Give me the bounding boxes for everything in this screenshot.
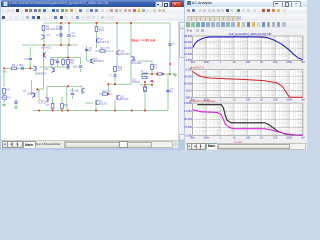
wire fb riser — [66, 86, 68, 111]
svg-text:375.000: 375.000 — [184, 125, 193, 129]
wire C8 drop — [72, 88, 74, 92]
svg-text:600: 600 — [6, 90, 11, 92]
svg-text:C1: C1 — [20, 64, 24, 67]
svg-text:D2: D2 — [56, 34, 60, 37]
svg-text:Q11: Q11 — [120, 97, 125, 99]
wire C2 branch — [80, 58, 82, 65]
svg-text:Q10: Q10 — [132, 80, 137, 82]
svg-text:C9: C9 — [24, 58, 28, 61]
resistor R21 — [142, 76, 147, 78]
transistor Q3 input — [43, 53, 45, 57]
svg-text:100p: 100p — [74, 91, 80, 93]
svg-text:270: 270 — [106, 47, 111, 50]
resistor R8 — [42, 26, 45, 31]
transistor Q9 — [116, 51, 118, 55]
svg-text:47.2: 47.2 — [41, 103, 46, 105]
svg-text:0.1: 0.1 — [154, 68, 158, 70]
wire R17 link — [95, 50, 114, 52]
svg-text:10K: 10K — [273, 61, 278, 64]
resistor R11 — [67, 60, 70, 65]
svg-text:10: 10 — [233, 136, 236, 139]
capacitor C3 — [166, 89, 169, 91]
wire Q5 emitter — [38, 89, 40, 104]
wire driver riser — [107, 84, 109, 94]
wire R bank 1 — [52, 97, 54, 103]
wire Q13 branch — [130, 23, 132, 56]
capacitor C8 — [71, 92, 74, 94]
svg-text:IN1: IN1 — [3, 71, 7, 74]
wire Q6 link — [88, 60, 95, 62]
wire C4 branch — [68, 23, 70, 33]
wire Q mid — [81, 90, 83, 95]
svg-text:Q7: Q7 — [47, 34, 51, 37]
svg-text:1.125K: 1.125K — [184, 109, 192, 113]
svg-text:100K: 100K — [286, 136, 292, 139]
svg-text:1: 1 — [220, 136, 222, 139]
transistor Q8 — [47, 98, 49, 102]
diode D3 — [59, 27, 62, 29]
wire top supply rail — [44, 22, 171, 24]
svg-text:36.000: 36.000 — [184, 40, 192, 44]
svg-text:100: 100 — [246, 98, 251, 101]
svg-text:C7: C7 — [109, 76, 113, 78]
resistor R6 input — [12, 67, 17, 69]
wire Q9 branch — [116, 23, 118, 50]
wire LTP rail — [43, 45, 45, 89]
svg-text:C6: C6 — [172, 43, 176, 46]
resistor R7 — [151, 65, 154, 70]
curve out-phase black plot3 — [198, 105, 302, 136]
svg-text:10K: 10K — [273, 136, 278, 139]
wire mid-bottom rail — [47, 85, 66, 87]
transistor Q11 — [116, 96, 118, 100]
svg-text:24.000: 24.000 — [184, 46, 192, 50]
svg-text:1M: 1M — [301, 61, 304, 64]
capacitor C5 — [85, 48, 88, 50]
svg-text:10m: 10m — [190, 98, 195, 101]
svg-text:1: 1 — [220, 61, 222, 64]
wire C3 branch — [167, 86, 169, 90]
svg-text:10m: 10m — [190, 136, 195, 139]
resistor R18 — [103, 93, 108, 95]
resistor R20 bias — [158, 73, 163, 75]
svg-text:100: 100 — [246, 136, 251, 139]
wire R bank 2 — [61, 97, 63, 103]
svg-text:100K: 100K — [286, 61, 292, 64]
wire V1 branch — [3, 68, 5, 87]
diode D2 — [59, 34, 62, 36]
transistor Q10a — [53, 68, 55, 72]
wire Q5 riser — [31, 80, 33, 92]
capacitor C10 — [56, 60, 59, 62]
junction dots bottom rail — [38, 110, 40, 112]
svg-text:R7: R7 — [154, 65, 158, 67]
wire R18 row — [99, 93, 112, 95]
svg-text:1K: 1K — [260, 61, 263, 64]
svg-text:0.000: 0.000 — [186, 68, 193, 72]
svg-text:Self_typical-BOX_dikith-dut-GB: Self_typical-BOX_dikith-dut-GB.CIR — [229, 32, 272, 36]
svg-text:150p: 150p — [72, 67, 78, 69]
wire Q11 emitter — [114, 100, 116, 111]
svg-text:V1: V1 — [8, 97, 12, 100]
wire input — [4, 67, 34, 69]
wire driver rail — [108, 83, 131, 85]
junction dots top rail — [60, 22, 62, 24]
wire C6 branch — [169, 40, 171, 43]
svg-text:BD139C: BD139C — [99, 104, 108, 106]
svg-text:1: 1 — [220, 98, 222, 101]
svg-text:2N5551C: 2N5551C — [27, 93, 37, 95]
junction dots mid rail — [43, 44, 45, 46]
svg-text:db(v(OUT)): db(v(OUT)) — [190, 66, 204, 70]
wire comp row top — [50, 57, 80, 59]
svg-text:1K: 1K — [260, 98, 263, 101]
ground V1 — [3, 100, 5, 103]
transistor Q7 — [43, 35, 45, 39]
svg-text:750.000: 750.000 — [184, 117, 193, 121]
transistor Q12 — [81, 89, 83, 93]
resistor R10 — [61, 104, 64, 109]
capacitor C7 — [113, 74, 116, 76]
svg-text:100m: 100m — [203, 61, 209, 64]
svg-text:100K: 100K — [286, 98, 292, 101]
resistor R14 — [144, 87, 147, 92]
transistor Q2 input — [35, 66, 37, 70]
svg-text:10K: 10K — [273, 98, 278, 101]
wire input cap riser — [29, 47, 31, 57]
curve gain (blue) plot1 — [193, 37, 302, 60]
transistor Q6 — [90, 59, 92, 63]
svg-text:605: 605 — [64, 105, 69, 107]
svg-text:-90.000: -90.000 — [184, 82, 193, 86]
wire comp row bottom — [40, 66, 70, 68]
wire VAS riser — [86, 46, 88, 58]
wire bottom rail — [33, 110, 168, 112]
wire mid rail — [22, 44, 78, 46]
svg-text:22R: 22R — [118, 69, 123, 72]
svg-text:Q10: Q10 — [44, 69, 49, 71]
wire Q4 base — [85, 102, 93, 104]
svg-text:2N5551C: 2N5551C — [94, 60, 105, 63]
svg-text:12.000: 12.000 — [184, 52, 192, 56]
svg-text:2N5551C: 2N5551C — [37, 72, 47, 75]
capacitor C1 input — [21, 67, 23, 70]
svg-text:40: 40 — [89, 51, 92, 53]
resistor R12 — [51, 104, 54, 109]
svg-text:681: 681 — [70, 62, 75, 65]
svg-text:1K: 1K — [260, 136, 263, 139]
resistor R3 — [62, 60, 65, 65]
svg-text:10m: 10m — [190, 61, 195, 64]
wire Q9 emitter — [116, 53, 118, 66]
svg-text:R6: R6 — [12, 64, 16, 67]
svg-text:MJL4281: MJL4281 — [132, 62, 143, 65]
svg-text:C5: C5 — [89, 48, 93, 50]
capacitor C4 — [67, 34, 70, 36]
svg-text:Ibias = 4.80 mA: Ibias = 4.80 mA — [132, 39, 157, 43]
wire output row — [140, 73, 170, 75]
wire right rail upper — [169, 23, 171, 74]
svg-text:BD140C: BD140C — [120, 99, 129, 101]
svg-text:10: 10 — [233, 98, 236, 101]
svg-text:10: 10 — [233, 61, 236, 64]
svg-text:1M: 1M — [301, 136, 304, 139]
svg-text:1N4148: 1N4148 — [51, 28, 60, 31]
svg-text:BD140C: BD140C — [121, 53, 131, 56]
wire right rail lower — [167, 75, 169, 111]
resistor R2 — [95, 27, 98, 32]
svg-text:100m: 100m — [203, 98, 209, 101]
resistor R17 — [100, 50, 105, 52]
junction dots output row — [151, 73, 153, 75]
source V1 — [2, 95, 7, 100]
resistor R9 — [51, 60, 54, 65]
wire bias row — [140, 84, 152, 86]
transistor Q13 — [133, 57, 135, 61]
transistor Q1 — [96, 39, 98, 43]
svg-text:-45.000: -45.000 — [184, 75, 193, 79]
svg-text:4u: 4u — [170, 92, 173, 94]
resistor R19 — [114, 67, 117, 72]
svg-text:100: 100 — [246, 61, 251, 64]
svg-text:L1: L1 — [141, 71, 144, 73]
capacitor C6 — [168, 43, 171, 45]
svg-text:-135.0: -135.0 — [185, 88, 193, 92]
wire D-string — [60, 23, 62, 45]
svg-text:BYP: BYP — [99, 29, 104, 32]
curve out-phase magenta plot3 — [193, 110, 302, 136]
svg-text:100m: 100m — [203, 136, 209, 139]
wire R11 branch — [67, 45, 69, 58]
svg-text:48.000: 48.000 — [184, 34, 192, 38]
wire R7 branch — [151, 70, 153, 75]
inductor L1 — [142, 73, 148, 74]
svg-text:2N5.8 W: 2N5.8 W — [100, 41, 110, 44]
resistor R5 source — [3, 89, 6, 94]
svg-text:1N4148: 1N4148 — [132, 82, 141, 84]
wire Q4 emitter — [95, 103, 97, 111]
transistor Q5 — [34, 93, 36, 97]
wire out mid riser — [144, 85, 146, 111]
capacitor C2 — [79, 65, 82, 67]
svg-text:1.500K: 1.500K — [184, 101, 192, 105]
wire Q11 drop — [116, 95, 118, 100]
transistor Q4 — [95, 101, 97, 105]
wire R-Q1 branch — [96, 23, 98, 26]
wire R19-C7 — [114, 70, 116, 74]
capacitor C9 — [29, 57, 32, 59]
svg-text:C10: C10 — [54, 60, 59, 62]
wire input pair stem — [35, 66, 37, 68]
svg-text:47u: 47u — [72, 35, 77, 38]
svg-text:47u: 47u — [46, 105, 51, 107]
capacitor C11 shunt — [15, 99, 17, 102]
svg-text:2N5401C: 2N5401C — [41, 47, 52, 50]
svg-text:C3: C3 — [170, 89, 174, 91]
svg-text:R17: R17 — [100, 47, 105, 50]
ground output — [174, 73, 176, 75]
curve phase upper (red) plot2 — [193, 72, 303, 98]
svg-text:Q4: Q4 — [99, 101, 103, 103]
diode D4 — [66, 66, 69, 68]
svg-text:Q8: Q8 — [41, 101, 45, 103]
svg-text:1M: 1M — [301, 98, 304, 101]
